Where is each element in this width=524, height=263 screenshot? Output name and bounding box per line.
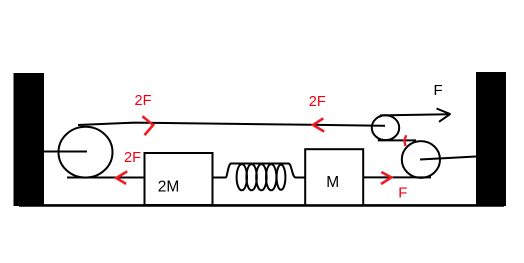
red tick between pulleys (404, 135, 406, 146)
F arrow wire (380, 114, 450, 115)
spring frame (213, 164, 306, 178)
big pulley (402, 141, 440, 178)
spring coil loop 3 (256, 164, 266, 190)
mass M box (305, 149, 363, 205)
ground (19, 204, 504, 207)
svg-text:2F: 2F (135, 93, 152, 109)
spring coil loop 5 (277, 165, 286, 190)
left pulley (59, 127, 113, 178)
svg-text:2F: 2F (309, 94, 326, 110)
small pulley (372, 115, 399, 140)
mass 2M box (145, 153, 213, 205)
left pulley axle wire (44, 151, 87, 153)
red arrowhead 2F right (top rope) (142, 116, 153, 135)
spring coil loop 4 (266, 164, 276, 190)
spring coil loop 1 (237, 164, 247, 190)
rope wire between small and big pulley (378, 139, 416, 141)
bottom-left rope wire (67, 177, 145, 179)
svg-text:2M: 2M (158, 179, 180, 196)
F arrowhead (437, 109, 451, 122)
right wall (476, 72, 506, 206)
top rope wire (78, 123, 385, 126)
svg-text:F: F (434, 82, 443, 99)
spring coil loop 2 (246, 164, 256, 190)
red arrowhead 2F left (lower rope) (116, 171, 127, 184)
big pulley axle wire (420, 157, 476, 160)
svg-text:2F: 2F (124, 150, 141, 166)
rope wire from M to big pulley (363, 176, 431, 178)
red arrowhead 2F left (top rope) (313, 118, 324, 131)
red arrowhead F right (M rope) (381, 172, 391, 184)
svg-text:F: F (398, 184, 407, 201)
left wall (14, 73, 45, 206)
svg-text:M: M (326, 174, 339, 191)
